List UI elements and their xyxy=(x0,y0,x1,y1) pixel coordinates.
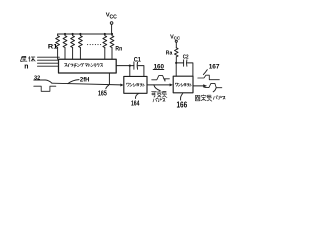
svg-text:CC: CC xyxy=(174,36,181,41)
node bus dot 4 xyxy=(79,33,81,35)
label C1 xyxy=(134,58,142,64)
wire r3 lead xyxy=(72,48,74,60)
wire output arrow from one-shot 166 xyxy=(193,85,203,87)
label 164 xyxy=(131,98,140,107)
label pulse katakana (small パルス right) xyxy=(213,96,225,100)
arrowhead into one-shot 164 xyxy=(120,84,123,87)
svg-text:165: 165 xyxy=(98,88,107,97)
resistor 2 xyxy=(63,34,67,48)
resistor R1 xyxy=(56,34,60,48)
power VCC (right) label xyxy=(170,35,181,41)
label fixed length (kanji 固定長, vector strokes) xyxy=(195,95,211,101)
wire select line 4 xyxy=(38,65,59,67)
wire r4 lead xyxy=(79,48,81,60)
power VCC (left) terminal circle xyxy=(110,22,113,25)
wire supply bus xyxy=(58,33,113,35)
node bus dot 2 xyxy=(64,33,66,35)
wire r2 lead xyxy=(64,48,66,60)
resistor 5 xyxy=(103,34,107,48)
leader 167 xyxy=(203,70,207,75)
label variable length (kanji 可変長, vector strokes) xyxy=(152,91,167,97)
svg-text:Ra: Ra xyxy=(166,50,173,56)
box one-shot 166 xyxy=(173,76,193,93)
waveform variable pulse (above wire) xyxy=(152,76,170,82)
arrowhead into one-shot 166 xyxy=(170,83,173,86)
leader variable-pulse label xyxy=(154,85,160,91)
svg-text:Rn: Rn xyxy=(115,46,122,53)
label 32 (underlined) xyxy=(34,75,41,81)
box one-shot 164 xyxy=(124,76,147,93)
wire trigger line (long) xyxy=(52,83,121,85)
box switching matrix xyxy=(59,59,117,73)
wire VCC right lead xyxy=(175,42,177,47)
label C2 xyxy=(183,54,189,60)
resistor Ra xyxy=(175,48,179,63)
svg-text:C1: C1 xyxy=(134,58,142,64)
leader 164 xyxy=(135,94,138,99)
power VCC (right) terminal circle xyxy=(175,40,177,42)
label Ra xyxy=(166,50,173,56)
waveform negative pulse (under 32) xyxy=(34,86,56,91)
waveform fixed pulse (lower) xyxy=(205,83,222,88)
resistor 4 xyxy=(79,34,83,48)
label 160 (underlined) xyxy=(154,64,165,71)
wire matrix right edge to C1 node xyxy=(116,65,134,67)
wire Rn lead xyxy=(111,48,113,60)
ellipsis dots between resistors xyxy=(87,44,101,45)
capacitor C2 xyxy=(184,60,187,66)
resistor 3 xyxy=(71,34,75,48)
label select (kanji 選択, vector strokes) xyxy=(21,56,36,61)
wire select line 3 xyxy=(38,62,59,64)
leader 160 underline xyxy=(153,69,164,71)
wire VCC lead down to bus xyxy=(111,24,113,34)
label katakana one-shot (in box 166) xyxy=(175,83,191,86)
node Ra/C2 junction xyxy=(175,62,177,64)
node bus dot VCC xyxy=(111,33,113,35)
wire r5 lead xyxy=(104,48,106,60)
waveform output pulse (upper, 167) xyxy=(198,75,220,80)
label 167 xyxy=(209,64,220,71)
label katakana "switching matrix" (vector strokes) xyxy=(65,63,103,67)
svg-text:R1: R1 xyxy=(48,43,58,50)
arrowhead output xyxy=(203,84,207,87)
svg-text:2fH: 2fH xyxy=(80,77,90,84)
svg-text:C2: C2 xyxy=(183,54,189,60)
label n xyxy=(24,64,28,71)
label 165 xyxy=(98,88,107,97)
svg-text:n: n xyxy=(24,64,28,71)
power VCC (left) label xyxy=(106,13,117,21)
label pulse katakana (small パルス) xyxy=(153,98,165,102)
wire junction to C2 xyxy=(176,62,183,64)
wire C1 node drop to one-shot 164 xyxy=(129,66,131,77)
svg-text:CC: CC xyxy=(110,15,118,21)
wire matrix output down to trigger line (node 165) xyxy=(108,73,110,84)
wire junction down to one-shot 166 xyxy=(175,63,177,76)
svg-text:164: 164 xyxy=(131,98,140,107)
leader 2fH to line xyxy=(68,80,79,84)
wire R1 lead to box xyxy=(57,48,59,60)
label R1 xyxy=(48,43,58,50)
node bus dot 5 xyxy=(104,33,106,35)
arrowhead on variable pulse slash xyxy=(164,79,166,81)
wire one-shot 164 to one-shot 166 xyxy=(147,84,170,86)
leader 165 xyxy=(106,85,109,89)
wire select line 1 xyxy=(38,56,60,58)
label katakana one-shot (in box 164) xyxy=(127,83,145,86)
leader fixed-pulse label xyxy=(213,88,216,92)
node C1 left junction xyxy=(129,64,131,66)
wire select line 2 xyxy=(38,59,59,61)
wire C1 right to drop xyxy=(137,66,144,77)
label 166 xyxy=(177,100,188,109)
leader 32 underline and hook to line xyxy=(34,80,52,83)
wire C2 right and drop to box xyxy=(187,63,193,76)
label 2fH xyxy=(80,77,90,84)
svg-text:166: 166 xyxy=(177,100,188,109)
label Rn xyxy=(115,46,122,53)
node bus dot 3 xyxy=(72,33,74,35)
svg-text:167: 167 xyxy=(209,64,220,71)
resistor Rn xyxy=(110,34,114,48)
leader 166 xyxy=(181,94,183,100)
capacitor C1 xyxy=(134,62,138,69)
